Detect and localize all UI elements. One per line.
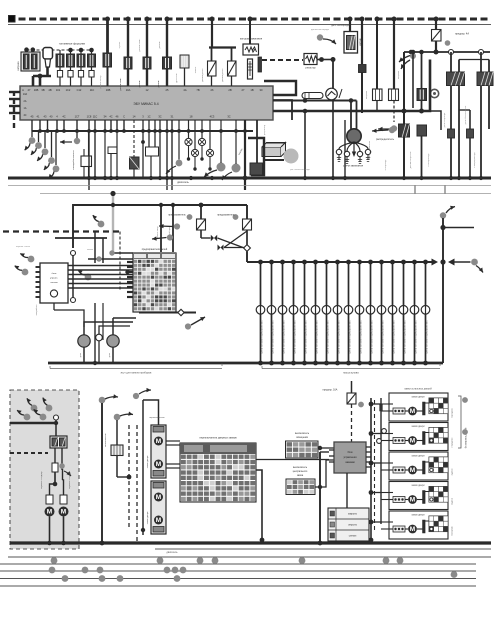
door lock unit 1: [389, 393, 448, 421]
svg-text:M: M: [410, 408, 415, 415]
dark bar connector: [258, 57, 262, 72]
svg-text:4B: 4B: [48, 88, 51, 92]
wire: secondary rail y238 left: [55, 237, 107, 239]
svg-text:3B: 3B: [41, 88, 44, 92]
wire: x95 block to mid bus: [94, 303, 96, 363]
svg-text:цепь питания приборов авт.: цепь питания приборов авт.: [403, 320, 407, 354]
diamond splice on outlet: [178, 309, 184, 315]
svg-text:датч. кислорода: датч. кислорода: [331, 25, 349, 27]
connector sensor x117: [114, 414, 121, 421]
central locking control unit: [334, 442, 366, 473]
node dot x113 y193: [110, 191, 115, 196]
wires tables to control unit: [318, 447, 334, 449]
door relay box x110: [111, 445, 123, 456]
svg-text:передняя: передняя: [452, 437, 454, 447]
svg-text:замками: замками: [345, 461, 355, 464]
fuse circuit line 1: [258, 260, 263, 265]
svg-text:M: M: [410, 497, 415, 504]
wires x89-95 to below bus: [88, 131, 90, 190]
wire: gray drop x113 to matrix: [112, 196, 114, 252]
svg-text:10B: 10B: [106, 88, 111, 92]
svg-text:дроссель: дроссель: [176, 72, 178, 82]
svg-text:зеркало с подогр.: зеркало с подогр.: [69, 471, 71, 489]
light switch table 1: [286, 441, 319, 458]
svg-text:M: M: [410, 467, 415, 474]
svg-text:центрального: центрального: [293, 471, 308, 473]
sensor arrow at oxygen sensor: [317, 34, 323, 40]
harness line 2: [0, 563, 476, 565]
svg-text:предохранители цепей: предохранители цепей: [142, 248, 168, 251]
svg-text:датчик скорости: датчик скорости: [410, 151, 412, 168]
mirror unit dashed gray box: [10, 390, 79, 549]
svg-text:замок двери: замок двери: [411, 397, 425, 399]
wire: ECU feed to frame x430: [273, 60, 430, 112]
svg-text:ЭБУ МИКАС 5.4: ЭБУ МИКАС 5.4: [133, 102, 158, 106]
ECU left pin stubs: [13, 91, 15, 128]
crankshaft sensor B2: [103, 53, 112, 67]
fuse circuit line 3: [280, 260, 285, 265]
svg-text:C12: C12: [77, 88, 82, 92]
ignition key arrows: [399, 55, 412, 62]
wire: F2 down to bowtie: [200, 230, 202, 238]
front door lock unit B: [151, 481, 166, 534]
fuse circuit line 12: [379, 260, 384, 265]
svg-text:замок двери: замок двери: [147, 511, 149, 524]
sensor links into matrix: [88, 258, 133, 260]
steering switch arrows mid: [174, 223, 180, 229]
svg-text:2A: 2A: [24, 100, 27, 103]
column switch sensors left: [98, 221, 105, 228]
wire: x421 junction to x441: [422, 111, 442, 130]
matrix outlet arrow: [191, 317, 205, 325]
wire: drop x377: [376, 19, 378, 89]
svg-text:блок: блок: [52, 273, 57, 275]
light switch table 2: [286, 479, 315, 495]
small box x110: [108, 147, 117, 154]
wires x143-172 below ECU: [142, 120, 144, 178]
mirror switch sensors: [31, 405, 38, 412]
svg-text:реле стартера: реле стартера: [444, 112, 446, 127]
bottom main ground bus: [10, 541, 491, 544]
svg-text:предохранитель: предохранитель: [168, 215, 186, 217]
svg-text:цепь питания приборов авт.: цепь питания приборов авт.: [337, 320, 341, 354]
fuse F3: [243, 219, 252, 230]
open splice circles: [382, 429, 387, 434]
fuse circuit line 16: [423, 260, 428, 265]
tick marks on frame lines: [414, 186, 416, 194]
svg-text:лампа: лампа: [195, 66, 197, 73]
below-ECU drops: [31, 120, 33, 131]
bracket harness label left: [50, 364, 222, 369]
box x421 y125: [417, 125, 427, 136]
wire: dashed run y60 to resistor: [262, 59, 303, 61]
spark plug under coil: [248, 59, 253, 79]
svg-text:4C: 4C: [109, 115, 112, 119]
svg-text:выключатель: выключатель: [105, 432, 107, 446]
harness line 5: [0, 585, 476, 587]
wire: bus drop x212: [211, 19, 213, 48]
control unit right pins: [366, 446, 371, 448]
feeder branch dots: [369, 402, 374, 407]
mirror relay K3: [50, 436, 67, 448]
wire table outlet: [256, 470, 262, 540]
svg-text:4C3: 4C3: [210, 115, 215, 119]
wire: thin rail under bus: [8, 24, 491, 26]
coil pack right x390: [389, 89, 399, 101]
mirror feed rail: [10, 422, 56, 425]
tachometer gauge P1: [326, 88, 338, 100]
svg-text:4C: 4C: [23, 114, 26, 117]
wire: sensor top rail y47.5: [209, 46, 236, 48]
svg-text:7B: 7B: [196, 88, 199, 92]
spark plugs group: [336, 149, 341, 154]
svg-text:датчик темп.: датчик темп.: [120, 77, 122, 90]
svg-text:замок двери: замок двери: [411, 426, 425, 428]
open connector circles x73: [71, 251, 76, 256]
svg-text:1C7: 1C7: [75, 115, 80, 119]
wire: bus drop x167: [166, 19, 168, 86]
door switches table: [180, 443, 256, 502]
feeder riser x443: [440, 212, 446, 218]
wire: x201 fuse drop: [200, 205, 202, 219]
right group bracket: [458, 396, 461, 448]
svg-text:перекл. света: перекл. света: [16, 246, 31, 248]
svg-text:10A: 10A: [23, 93, 28, 96]
svg-text:M: M: [156, 461, 161, 468]
fuse circuit line 13: [390, 260, 395, 265]
svg-text:3C: 3C: [158, 115, 161, 119]
svg-text:светом: светом: [50, 282, 58, 284]
sensor B8: [231, 48, 233, 62]
svg-text:датчик синхр.: датчик синхр.: [100, 75, 102, 89]
connector bar on feeder: [380, 404, 383, 411]
engine ground bus: [8, 177, 491, 180]
svg-text:замки остальных дверей: замки остальных дверей: [404, 388, 432, 391]
svg-text:к аккумулятору: к аккумулятору: [474, 151, 476, 167]
svg-text:лампа авар.: лампа авар.: [157, 225, 159, 238]
svg-text:датчик: датчик: [159, 42, 161, 49]
connector box on x362: [359, 65, 367, 73]
door lock unit 2: [389, 423, 448, 451]
ECU engine control unit U1: [20, 86, 273, 120]
mirror motor M2: [59, 507, 69, 517]
svg-text:цепь питания приборов авт.: цепь питания приборов авт.: [260, 320, 264, 354]
air temp sensor B4: [143, 57, 151, 69]
wire: rail drops to matrix x161 x173: [160, 205, 162, 252]
harness line 1: [8, 556, 491, 558]
svg-text:датчик темп.: датчик темп.: [139, 38, 141, 51]
sensor drop wires: [31, 131, 33, 137]
wire x105 to bus: [104, 131, 106, 178]
matrix left pin stubs: [127, 261, 133, 263]
bowtie connector pair: [201, 237, 211, 239]
svg-text:10B: 10B: [34, 88, 39, 92]
svg-text:замка: замка: [297, 475, 304, 477]
fuse circuit line 7: [324, 260, 329, 265]
svg-text:4C: 4C: [62, 115, 65, 119]
svg-text:жгут для панели приборов: жгут для панели приборов: [121, 372, 152, 375]
wire: x305 drop to engine bus: [304, 111, 306, 178]
cam sensor x404: [399, 124, 410, 137]
right sensor arrow: [476, 266, 483, 273]
wire: ECU right heavy links: [264, 81, 296, 95]
harness line 4: [0, 578, 476, 580]
svg-text:цепь питания приборов авт.: цепь питания приборов авт.: [326, 320, 330, 354]
svg-text:цепь питания приборов авт.: цепь питания приборов авт.: [414, 320, 418, 354]
knock sensor B7: [211, 48, 213, 62]
svg-text:к генератору: к генератору: [428, 153, 430, 167]
wire: phase sensor thick leads: [33, 75, 51, 78]
control unit left pins: [329, 449, 334, 451]
wire: dashed rail y231: [3, 230, 120, 232]
dashed vertical x120: [119, 232, 121, 291]
wire: control unit down riser x320: [320, 451, 329, 453]
svg-text:катушка: катушка: [366, 90, 368, 99]
fuse circuit line 5: [302, 260, 307, 265]
svg-text:датчик: датчик: [158, 81, 160, 88]
center plug arrow: [353, 143, 355, 152]
svg-text:2B: 2B: [228, 88, 231, 92]
wire: main power bus top (dashed): [8, 18, 491, 21]
wire: thin frame line 1: [8, 185, 491, 187]
wire: mid top rail: [73, 205, 247, 248]
svg-text:цепь питания приборов авт.: цепь питания приборов авт.: [359, 320, 363, 354]
mirror dashed rail: [10, 452, 48, 454]
wires above gauges: [84, 322, 133, 327]
wire: x245 heavy below ECU: [244, 120, 246, 190]
small connector stub x179: [176, 160, 183, 167]
fuse circuit line 15: [412, 260, 417, 265]
idle air control valve (3d): [262, 147, 281, 157]
svg-text:выключатель: выключатель: [295, 433, 310, 435]
svg-text:предохр. 4A: предохр. 4A: [455, 33, 469, 36]
svg-text:управления: управления: [343, 456, 357, 459]
wire: x333 drop to tachometer: [332, 60, 334, 89]
below-ECU rail y131: [32, 130, 253, 132]
svg-text:резистор: резистор: [306, 67, 317, 70]
dashed vertical x134 with purge valve: [133, 120, 135, 157]
wire: x247 drop: [246, 205, 248, 219]
legend table: [328, 508, 369, 541]
svg-text:замок: замок: [87, 249, 93, 251]
svg-text:замок двери: замок двери: [411, 485, 425, 487]
coolant temp sensor B3: [124, 57, 132, 69]
relay K1 main: [450, 52, 452, 72]
svg-text:управл.: управл.: [50, 278, 58, 280]
svg-text:двигатель: двигатель: [166, 551, 178, 554]
wire: injector dashed rail y50: [27, 49, 93, 51]
svg-text:двигатель: двигатель: [177, 181, 189, 184]
fuse circuit line 6: [313, 260, 318, 265]
wire: block bottom drop: [72, 256, 74, 298]
svg-text:101: 101: [56, 88, 61, 92]
fuse circuit line 11: [368, 260, 373, 265]
thick frame below idle valve: [248, 138, 264, 160]
svg-text:цепь питания приборов авт.: цепь питания приборов авт.: [315, 320, 319, 354]
wire: bus drop x147: [146, 19, 148, 86]
wire: K1 outputs to ground bus: [450, 86, 452, 179]
fuse F2: [197, 219, 206, 230]
wire: drop x421 from rail: [421, 52, 423, 89]
distributor pointer: [389, 127, 395, 133]
svg-text:катушка: катушка: [18, 61, 20, 70]
svg-text:1B: 1B: [250, 88, 253, 92]
throttle position sensor B6: [180, 55, 189, 68]
gray connector arrow x394: [391, 125, 397, 131]
fuse circuit line 14: [401, 260, 406, 265]
fuse circuit line 9: [346, 260, 351, 265]
svg-text:цепь питания приборов авт.: цепь питания приборов авт.: [293, 320, 297, 354]
wire: oxygen drops: [349, 19, 351, 32]
svg-text:цепь питания приборов авт.: цепь питания приборов авт.: [392, 320, 396, 354]
riser x101 with connector: [99, 397, 106, 404]
bowtie splice around riser: [432, 259, 439, 266]
svg-text:цепь питания приборов авт.: цепь питания приборов авт.: [425, 320, 429, 354]
gauge cluster bottom-left: [78, 335, 90, 347]
svg-text:M: M: [156, 494, 161, 501]
wire: thin frame line 2: [40, 193, 491, 195]
svg-text:топливные форсунки: топливные форсунки: [59, 42, 86, 46]
node: bus left terminal block: [9, 16, 16, 23]
vertical x413: [412, 52, 414, 108]
svg-text:реле бензонасоса: реле бензонасоса: [465, 105, 467, 124]
svg-text:1C8: 1C8: [87, 115, 92, 119]
svg-text:цепь питания приборов авт.: цепь питания приборов авт.: [271, 320, 275, 354]
ring sensor x434: [430, 89, 438, 97]
svg-text:M: M: [410, 526, 415, 533]
svg-text:катушка: катушка: [398, 70, 400, 79]
oxygen sensor B9: [344, 32, 358, 54]
wire bundle block to matrix: [68, 265, 133, 267]
svg-text:10A: 10A: [126, 88, 131, 92]
svg-text:предохр. 16A: предохр. 16A: [323, 389, 338, 392]
svg-text:M: M: [61, 509, 66, 516]
svg-text:цепь питания приборов авт.: цепь питания приборов авт.: [381, 320, 385, 354]
big gray throttle circle: [284, 149, 299, 164]
wire: x470 top link: [459, 109, 470, 111]
dashed riser x137: [136, 425, 138, 543]
svg-text:задняя: задняя: [452, 468, 454, 476]
svg-text:цепь питания приборов авт.: цепь питания приборов авт.: [282, 320, 286, 354]
svg-text:распределитель: распределитель: [376, 138, 395, 141]
engine sensors cluster: [29, 137, 36, 144]
wire: resistor to junction: [317, 59, 333, 61]
svg-text:масса кузова: масса кузова: [343, 372, 359, 375]
mirror motor connectors: [46, 495, 53, 504]
svg-text:закрыто: закрыто: [348, 513, 358, 516]
svg-text:датчик детон.: датчик детон.: [222, 68, 224, 82]
wire: x333 gauge down to bus: [332, 100, 334, 179]
harness junction dots: [51, 557, 58, 564]
svg-text:аварийная: аварийная: [35, 304, 38, 316]
svg-text:свечи зажигания: свечи зажигания: [343, 165, 364, 168]
hazard relay block left: [40, 263, 68, 303]
module x421 striped: [417, 89, 427, 101]
fuse F4 16A: [347, 393, 356, 404]
wire: drop x394: [393, 19, 395, 89]
relay K2 fuel pump: [480, 52, 482, 72]
wire: ECU to distributor rail y100: [273, 100, 357, 102]
left lock riser: [142, 400, 144, 535]
svg-text:датчик детон.: датчик детон.: [202, 68, 204, 82]
svg-text:3C: 3C: [227, 115, 230, 119]
svg-text:сигнал: сигнал: [349, 535, 357, 538]
dashed riser x129: [128, 425, 130, 530]
svg-text:C: C: [123, 115, 125, 119]
capsule gauge: [302, 93, 323, 99]
fuse bus y262: [247, 261, 432, 263]
door lock unit 5: [389, 511, 448, 539]
wire: x347 control unit to bus: [346, 473, 348, 508]
svg-text:регулятор: регулятор: [264, 124, 266, 135]
wire: x345 drop: [344, 120, 346, 178]
matrix bottom outlet rail: [139, 312, 196, 314]
wire: frame to circle y160: [264, 159, 284, 161]
svg-text:к реле: к реле: [119, 41, 121, 48]
svg-text:M: M: [156, 438, 161, 445]
svg-text:рег. холостого хода: рег. холостого хода: [290, 169, 310, 171]
svg-text:багажник: багажник: [452, 526, 454, 535]
svg-text:A: A: [22, 88, 24, 92]
svg-text:замок двери: замок двери: [411, 515, 425, 517]
svg-text:датчик: датчик: [139, 81, 141, 88]
wire: bus drop to crank sensor x107.5: [106, 19, 109, 53]
svg-text:1A: 1A: [24, 107, 27, 110]
resistor R1: [304, 54, 317, 65]
wire: bus drop x128: [127, 19, 129, 86]
ignition module box x86: [81, 156, 92, 167]
svg-text:освещения: освещения: [296, 437, 309, 439]
fuel pump connector dot: [74, 138, 80, 144]
injectors Y1-Y4: [59, 50, 61, 54]
svg-text:катушка зажигания: катушка зажигания: [240, 38, 263, 41]
wire: lock units to control unit: [256, 459, 329, 461]
mirror motor M1: [45, 507, 55, 517]
svg-text:указ.: указ.: [80, 352, 82, 357]
svg-text:цепь питания приборов авт.: цепь питания приборов авт.: [348, 320, 352, 354]
fuse circuit line 2: [269, 260, 274, 265]
svg-text:переключатель: переключатель: [149, 417, 165, 419]
fuse-relay matrix block: [133, 253, 176, 312]
fuse F1 4A: [432, 30, 442, 42]
svg-text:электробензонасос: электробензонасос: [73, 149, 75, 170]
wire: ignition feed rail y52: [404, 51, 490, 53]
connector on K1 wire: [448, 129, 455, 138]
lamps under ECU: [188, 120, 190, 138]
svg-text:замок двери: замок двери: [147, 455, 149, 468]
door lock dashed feeder x374.5: [374, 400, 376, 530]
spark plug wires fan: [339, 142, 354, 149]
bottom thin rail: [155, 548, 491, 550]
svg-text:выключатель: выключатель: [293, 467, 308, 469]
door lock unit 3: [389, 452, 448, 480]
mirror wiring: [54, 448, 56, 484]
svg-text:1C: 1C: [147, 115, 150, 119]
bracket body ground label: [262, 364, 440, 369]
diamond connector x247: [246, 230, 248, 245]
svg-text:передняя: передняя: [452, 407, 454, 417]
front door lock unit A: [151, 425, 166, 478]
MAP sensor B5: [163, 57, 172, 69]
svg-text:указ.: указ.: [109, 352, 111, 357]
svg-text:к стартеру: к стартеру: [385, 159, 387, 170]
svg-text:переключатели дверных замков: переключатели дверных замков: [199, 437, 237, 440]
fuse circuit line 10: [357, 260, 362, 265]
module box x252 dark: [250, 163, 263, 175]
connector on K2 wire: [467, 129, 474, 138]
svg-text:цепь питания приборов авт.: цепь питания приборов авт.: [304, 320, 308, 354]
svg-text:предохранитель: предохранитель: [217, 215, 235, 217]
